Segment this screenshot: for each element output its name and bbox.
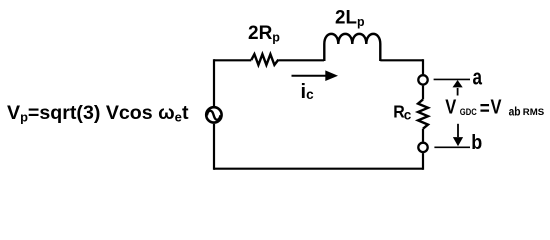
wire inductor to top-right corner [380,59,423,61]
svg-text:GDC: GDC [460,107,477,118]
svg-text:V: V [445,96,457,118]
svg-text:c: c [404,107,412,122]
right vertical wire upper [422,59,424,74]
terminal a lead line [434,78,470,80]
left vertical wire lower [213,124,215,170]
svg-text:ic: ic [301,81,315,103]
AC source circle [206,107,221,122]
voltage arrow up (at a) [457,88,459,96]
svg-text:a: a [473,65,483,90]
bottom wire [214,168,423,170]
current arrow ic [292,75,327,77]
svg-text:Vp=sqrt(3) Vcos ωet: Vp=sqrt(3) Vcos ωet [7,102,189,125]
wire between resistor and inductor [278,59,324,61]
svg-text:=: = [480,98,490,120]
voltage arrow down (at b) [457,124,459,137]
wire top-left segment [214,59,251,61]
resistor Rc [418,99,428,128]
wire Rc to bottom node [422,129,424,142]
terminal node top (open circle) [418,75,427,84]
svg-text:2Lp: 2Lp [335,7,365,28]
resistor 2Rp [251,54,278,65]
svg-text:ab: ab [509,104,521,118]
svg-text:2Rp: 2Rp [248,23,280,44]
left vertical wire upper [213,59,215,106]
svg-text:RMS: RMS [523,107,544,118]
inductor 2Lp [324,34,380,61]
right vertical wire lower [422,153,424,170]
terminal node bottom (open circle) [418,143,427,152]
svg-text:b: b [471,131,482,154]
AC source sine wave [207,111,221,120]
terminal b lead line [434,146,470,148]
wire node to Rc [422,86,424,100]
svg-text:V: V [491,97,503,119]
